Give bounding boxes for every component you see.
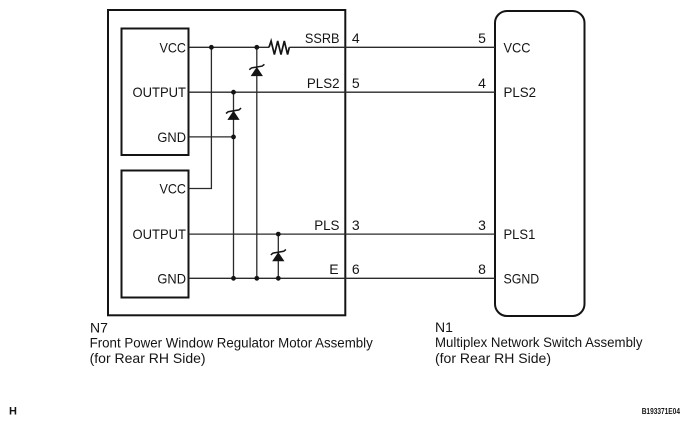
resistor R1 <box>269 41 289 55</box>
junction dot SSRB/D1 <box>254 45 259 50</box>
junction dot GND1 <box>231 135 236 140</box>
wire VCC1 to resistor (net SSRB) <box>189 46 270 48</box>
motor block M2 (lower inner box) <box>122 171 189 298</box>
junction dot E/net233 <box>231 276 236 281</box>
zener diode D1 (on SSRB net) <box>249 64 264 75</box>
svg-text:GND: GND <box>157 129 186 145</box>
connector N1 rounded box <box>495 11 585 316</box>
svg-text:4: 4 <box>352 30 360 46</box>
zener diode D3 (on PLS net) <box>271 250 286 261</box>
svg-text:5: 5 <box>352 75 360 91</box>
wire GND1 stub <box>189 136 234 138</box>
svg-text:Multiplex Network Switch Assem: Multiplex Network Switch Assembly <box>435 334 643 350</box>
svg-text:(for Rear RH Side): (for Rear RH Side) <box>90 350 206 366</box>
svg-text:N7: N7 <box>90 319 108 335</box>
wire vertical net at x=233.5 (PLS2 to E) <box>233 92 235 278</box>
svg-text:VCC: VCC <box>160 39 187 55</box>
svg-text:(for Rear RH Side): (for Rear RH Side) <box>435 350 551 366</box>
junction dot SSRB/VCC2 <box>209 45 214 50</box>
svg-text:3: 3 <box>352 217 360 233</box>
junction dot PLS2/D2 <box>231 90 236 95</box>
svg-text:H: H <box>9 406 17 418</box>
wire PLS2 (OUTPUT1 to N1) <box>189 91 496 93</box>
svg-text:SSRB: SSRB <box>305 30 340 46</box>
wire SSRB to N1 VCC pin <box>289 46 495 48</box>
junction dot PLS/D3 <box>276 232 281 237</box>
svg-text:N1: N1 <box>435 319 453 335</box>
wire PLS (OUTPUT2 to N1) <box>189 233 496 235</box>
wire vertical net at x=278.3 (PLS to E) <box>277 234 279 278</box>
svg-text:VCC: VCC <box>504 39 531 55</box>
svg-text:OUTPUT: OUTPUT <box>133 84 187 100</box>
junction dot E/D3 <box>276 276 281 281</box>
svg-text:6: 6 <box>352 261 360 277</box>
svg-text:PLS2: PLS2 <box>504 84 537 100</box>
wire VCC2 up to SSRB node <box>189 47 212 188</box>
svg-text:VCC: VCC <box>160 181 187 197</box>
svg-text:OUTPUT: OUTPUT <box>133 226 187 242</box>
svg-text:PLS: PLS <box>314 217 339 233</box>
zener diode D2 (on PLS2 net) <box>226 108 241 119</box>
svg-text:4: 4 <box>478 75 486 91</box>
svg-text:PLS2: PLS2 <box>307 75 340 91</box>
svg-text:E: E <box>329 261 338 277</box>
junction dot E/net257 <box>254 276 259 281</box>
svg-text:SGND: SGND <box>504 270 540 286</box>
svg-text:B193371E04: B193371E04 <box>642 407 681 416</box>
svg-text:GND: GND <box>157 270 186 286</box>
svg-text:PLS1: PLS1 <box>504 226 536 242</box>
svg-text:5: 5 <box>478 30 486 46</box>
motor block M1 (upper inner box) <box>122 29 189 156</box>
svg-text:3: 3 <box>478 217 486 233</box>
connector N7 outer box <box>108 10 345 315</box>
svg-text:8: 8 <box>478 261 486 277</box>
svg-text:Front Power Window Regulator M: Front Power Window Regulator Motor Assem… <box>90 335 373 351</box>
wire E (GND2 to N1) <box>189 277 496 279</box>
wire vertical net at x=256.8 (SSRB to E) <box>256 47 258 278</box>
